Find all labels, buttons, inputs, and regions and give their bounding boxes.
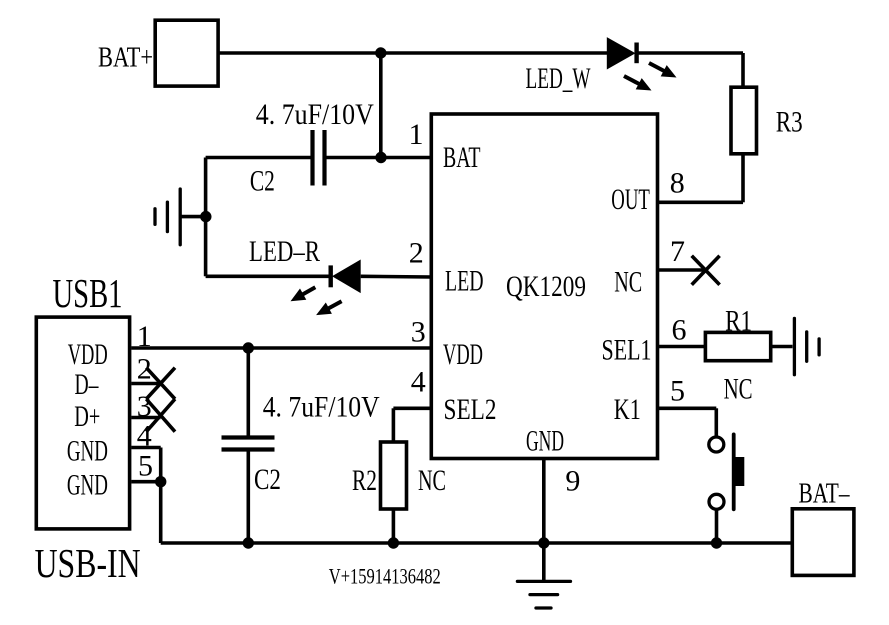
wire LED_W cathode to R3	[635, 51, 743, 55]
LED_W emission arrow 1	[649, 63, 677, 78]
svg-text:NC: NC	[724, 373, 753, 406]
node junction top BAT net	[375, 47, 386, 58]
wire USB GND drop	[159, 482, 163, 543]
capacitor C2 (top)	[313, 130, 325, 186]
svg-text:D–: D–	[75, 368, 100, 401]
ground (right, rotated)	[794, 318, 819, 374]
svg-text:LED–R: LED–R	[249, 235, 320, 268]
wire R3 bottom lead to pin 8	[658, 153, 744, 202]
no-connect X on USB pin2	[146, 368, 175, 399]
wire BAT+ to LED_W anode	[218, 51, 607, 55]
svg-text:9: 9	[565, 465, 580, 498]
node junction ground stub	[200, 211, 211, 222]
node junction pin1 BAT drop	[375, 152, 386, 163]
wire pin7 NC stub	[658, 268, 706, 272]
wire pin6 SEL1 stub	[658, 345, 706, 349]
wire C2 bottom top lead	[247, 348, 251, 436]
svg-text:7: 7	[670, 235, 685, 268]
svg-text:6: 6	[672, 314, 687, 347]
wire R3 top lead	[741, 53, 745, 88]
ground (bottom)	[517, 581, 570, 608]
wire R2 bottom lead	[392, 509, 396, 543]
no-connect X on USB pin3	[146, 399, 175, 432]
svg-text:LED_W: LED_W	[526, 62, 591, 95]
svg-text:GND: GND	[67, 435, 108, 468]
wire left vertical C2 to LED-R	[204, 158, 208, 277]
wire USB pin5 stub	[131, 480, 160, 484]
svg-text:V+15914136482: V+15914136482	[329, 564, 441, 589]
wire USB pin2 stub	[131, 382, 160, 386]
IC U1 QK1209 body	[431, 114, 657, 459]
svg-text:5: 5	[138, 449, 153, 482]
svg-text:C2: C2	[254, 463, 281, 496]
wire USB pin3 stub	[131, 416, 160, 420]
svg-text:LED: LED	[445, 265, 484, 298]
node junction VDD / C2	[243, 342, 254, 353]
svg-text:BAT+: BAT+	[98, 43, 153, 74]
svg-text:K1: K1	[614, 393, 641, 426]
svg-text:NC: NC	[614, 265, 642, 298]
svg-text:NC: NC	[418, 464, 446, 497]
svg-text:OUT: OUT	[611, 183, 650, 216]
wire button to ground rail	[715, 509, 719, 543]
svg-text:R1: R1	[725, 304, 752, 337]
wire LED-R to pin 2	[361, 274, 432, 278]
svg-text:USB1: USB1	[53, 270, 123, 316]
wire USB pin4-pin5 link	[159, 448, 163, 482]
LED LED-R	[331, 260, 361, 294]
svg-text:SEL2: SEL2	[444, 393, 497, 426]
LED-R emission arrow 2	[316, 301, 342, 315]
wire vertical BAT net drop	[379, 53, 383, 158]
svg-text:4: 4	[411, 366, 426, 399]
resistor R1	[705, 332, 770, 360]
ground (left, rotated)	[155, 189, 180, 245]
node junction C2 ground rail	[243, 537, 254, 548]
svg-text:2: 2	[409, 237, 424, 270]
connector USB1 body	[36, 317, 129, 529]
switch K1 push button	[709, 434, 745, 509]
svg-text:GND: GND	[526, 425, 564, 458]
svg-text:3: 3	[411, 316, 426, 349]
resistor R2	[381, 442, 407, 509]
svg-text:USB-IN: USB-IN	[35, 540, 141, 586]
svg-text:BAT: BAT	[443, 141, 481, 174]
svg-text:C2: C2	[250, 164, 275, 197]
svg-text:SEL1: SEL1	[602, 334, 652, 367]
svg-text:VDD: VDD	[443, 338, 483, 371]
node junction USB GND	[155, 476, 166, 487]
svg-text:4. 7uF/10V: 4. 7uF/10V	[263, 391, 380, 424]
wire pin4 SEL2 stub	[393, 408, 431, 443]
svg-text:QK1209: QK1209	[506, 270, 586, 303]
no-connect X on pin 7	[692, 256, 720, 285]
node junction GND rail	[538, 537, 549, 548]
svg-text:GND: GND	[67, 469, 108, 502]
node junction button ground rail	[711, 537, 722, 548]
svg-text:BAT–: BAT–	[799, 478, 851, 509]
svg-text:4. 7uF/10V: 4. 7uF/10V	[256, 98, 374, 131]
node junction R2 ground rail	[388, 537, 399, 548]
wire pin9 GND drop	[542, 459, 546, 582]
svg-text:8: 8	[670, 167, 685, 200]
svg-text:R2: R2	[352, 464, 377, 497]
wire USB pin4 stub	[131, 446, 160, 450]
wire ground rail (bottom)	[161, 541, 791, 545]
wire C2 to pin 1	[327, 156, 432, 160]
svg-text:VDD: VDD	[68, 338, 108, 371]
wire pin1 BAT to C2 (left segment)	[206, 156, 311, 160]
svg-text:D+: D+	[74, 400, 100, 433]
battery terminal BAT-	[792, 509, 854, 576]
LED_W emission arrow 2	[624, 76, 652, 91]
LED LED_W	[607, 37, 637, 69]
wire pin5 K1 stub	[658, 408, 717, 437]
wire VDD net USB pin1 to IC pin3	[131, 346, 431, 350]
battery terminal BAT+	[155, 20, 218, 86]
LED-R emission arrow 1	[291, 287, 316, 301]
wire LED-R anode side	[206, 274, 329, 278]
svg-text:1: 1	[409, 118, 424, 151]
wire ground stub	[181, 215, 206, 219]
resistor R3	[731, 87, 757, 154]
wire R1 to ground	[771, 345, 793, 349]
svg-text:R3: R3	[776, 105, 803, 138]
wire C2 bottom to ground rail	[247, 451, 251, 543]
capacitor C2 (bottom)	[222, 438, 275, 450]
svg-text:5: 5	[670, 375, 685, 408]
